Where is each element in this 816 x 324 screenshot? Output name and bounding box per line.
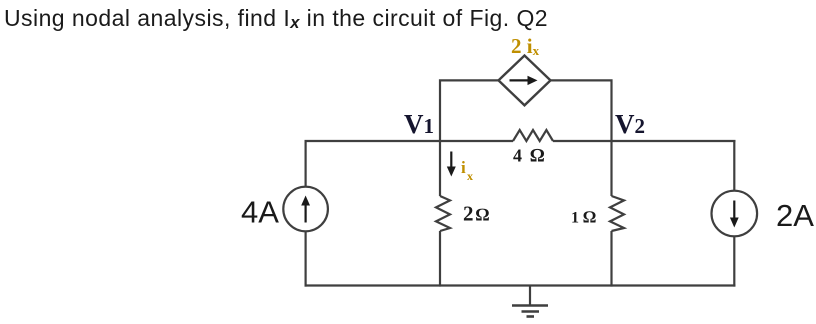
wire: right branch upper (middle wire down to 2A source): [733, 141, 735, 191]
ground symbol: [512, 286, 548, 317]
svg-text:2 ix: 2 ix: [511, 34, 540, 58]
wire: left branch upper (middle wire down to 4A source): [305, 141, 307, 187]
arrow inside dependent source (points right): [510, 76, 538, 85]
wire: top left segment (V1 node up and across to dependent source): [440, 80, 499, 141]
svg-text:V2: V2: [615, 109, 645, 139]
resistor R 1ohm (vertical zigzag): [610, 196, 624, 231]
wire: V2 column between middle wire and 1ohm resistor: [610, 141, 612, 196]
svg-text:4Ω: 4Ω: [513, 146, 545, 167]
svg-text:Using nodal analysis, find Ix: Using nodal analysis, find Ix in the cir…: [4, 5, 548, 32]
wire: middle horizontal right part (4ohm to right branch): [553, 140, 736, 142]
wire: left branch lower (4A source to bottom wire): [305, 231, 307, 286]
wire: V1 column between 2ohm and bottom wire: [439, 231, 441, 287]
wire: bottom horizontal: [305, 284, 736, 286]
svg-text:2Ω: 2Ω: [463, 202, 490, 226]
current source 4A (circle): [283, 187, 328, 232]
current source 2A (circle): [712, 191, 758, 237]
svg-text:1Ω: 1Ω: [571, 208, 596, 227]
resistor R 2ohm (vertical zigzag): [436, 196, 450, 231]
wire: right branch lower (2A source to bottom wire): [733, 236, 735, 286]
svg-text:V1: V1: [404, 109, 434, 139]
dependent current source (diamond): [499, 56, 551, 106]
resistor R 4ohm (horizontal zigzag): [513, 130, 553, 141]
svg-text:i: i: [461, 158, 466, 177]
wire: middle horizontal left part (left branch to 4ohm resistor): [305, 140, 514, 142]
arrow inside 4A source (points up): [301, 196, 310, 223]
ix current arrow (down): [447, 152, 456, 177]
svg-text:2A: 2A: [776, 198, 814, 233]
svg-text:4A: 4A: [241, 195, 279, 230]
wire: V2 column between 1ohm and bottom wire: [610, 231, 612, 287]
svg-text:x: x: [467, 169, 473, 183]
wire: V1 column between middle wire and 2ohm resistor: [439, 141, 441, 196]
wire: top right segment (dependent source to V2 node): [551, 80, 612, 141]
arrow inside 2A source (points down): [730, 201, 739, 228]
